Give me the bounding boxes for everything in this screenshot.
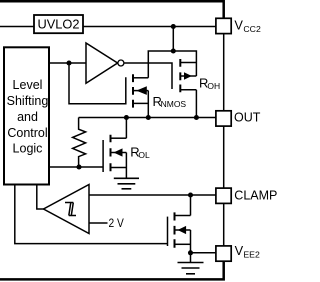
svg-text:OUT: OUT bbox=[234, 110, 261, 124]
svg-text:2 V: 2 V bbox=[109, 216, 125, 230]
svg-text:Control: Control bbox=[7, 126, 47, 140]
svg-text:and: and bbox=[17, 110, 38, 124]
svg-text:OH: OH bbox=[207, 81, 220, 91]
svg-text:OL: OL bbox=[138, 150, 150, 160]
svg-text:Shifting: Shifting bbox=[7, 94, 49, 108]
svg-text:V: V bbox=[234, 17, 243, 32]
svg-text:V: V bbox=[235, 243, 244, 258]
svg-text:Logic: Logic bbox=[13, 142, 43, 156]
svg-text:CLAMP: CLAMP bbox=[234, 189, 277, 203]
svg-text:UVLO2: UVLO2 bbox=[38, 16, 80, 31]
svg-text:Level: Level bbox=[13, 78, 43, 92]
svg-text:CC2: CC2 bbox=[243, 24, 261, 34]
svg-text:NMOS: NMOS bbox=[161, 99, 187, 109]
svg-text:EE2: EE2 bbox=[243, 249, 260, 259]
